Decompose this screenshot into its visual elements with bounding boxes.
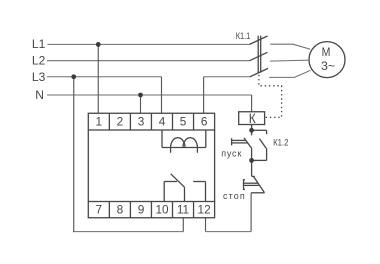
svg-text:L1: L1 [32, 37, 46, 51]
svg-text:пуск: пуск [221, 149, 242, 159]
svg-text:L3: L3 [32, 70, 46, 84]
svg-text:4: 4 [159, 115, 166, 129]
svg-text:К1.1: К1.1 [236, 31, 251, 41]
svg-text:стоп: стоп [223, 191, 246, 201]
svg-text:1: 1 [96, 115, 103, 129]
svg-text:3: 3 [138, 115, 145, 129]
svg-text:10: 10 [155, 203, 169, 217]
svg-text:3~: 3~ [321, 59, 335, 73]
svg-text:2: 2 [117, 115, 124, 129]
svg-text:6: 6 [201, 115, 208, 129]
svg-text:9: 9 [138, 203, 145, 217]
svg-text:К: К [249, 111, 256, 126]
svg-text:L2: L2 [32, 54, 46, 68]
svg-text:N: N [35, 88, 44, 102]
svg-text:7: 7 [96, 203, 103, 217]
svg-text:11: 11 [177, 203, 189, 217]
svg-text:К1.2: К1.2 [273, 138, 288, 149]
svg-text:8: 8 [117, 203, 124, 217]
svg-text:12: 12 [198, 203, 211, 217]
svg-text:M: M [322, 45, 331, 59]
svg-text:5: 5 [180, 115, 187, 129]
